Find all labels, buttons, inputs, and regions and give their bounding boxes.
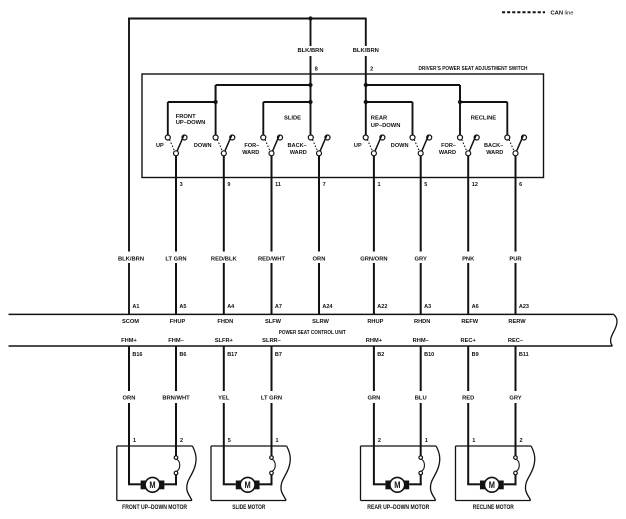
wire switch output col 2 (LT GRN) bbox=[175, 156, 177, 315]
pin 2 (recline motor) bbox=[520, 438, 523, 444]
wire motor lead RED (pin B9) bbox=[467, 346, 469, 484]
switch REAR DOWN (contacts and lever) bbox=[410, 135, 432, 156]
switch SLIDE FORWARD (contacts and lever) bbox=[261, 135, 283, 156]
wire feed drop to RECLINE FORWARD switch bbox=[459, 85, 461, 135]
motor M (slide motor) bbox=[236, 477, 260, 492]
pin A6 (control unit) bbox=[472, 304, 479, 310]
pin 1 (recline motor) bbox=[472, 438, 475, 444]
svg-text:UP–DOWN: UP–DOWN bbox=[176, 120, 206, 126]
pin B16 (control unit) bbox=[132, 352, 142, 358]
svg-text:A24: A24 bbox=[322, 304, 333, 310]
label FRONT UP-DOWN MOTOR bbox=[122, 505, 188, 511]
wire switch output col 4 (RED/WHT) bbox=[271, 156, 273, 315]
svg-text:UP: UP bbox=[354, 143, 362, 149]
svg-text:GRN: GRN bbox=[367, 396, 380, 402]
svg-text:FHDN: FHDN bbox=[217, 319, 233, 325]
svg-text:SLRW: SLRW bbox=[312, 319, 329, 325]
label wire color YEL bbox=[218, 396, 230, 402]
wire bus to FORWARD switch bbox=[263, 101, 310, 103]
junction REC FORWARD feed bbox=[458, 100, 462, 104]
pin 9 (switch output) bbox=[227, 182, 230, 188]
svg-text:PNK: PNK bbox=[462, 256, 475, 262]
pin A1 (control unit) bbox=[132, 304, 139, 310]
pin 1 (rear up-down motor) bbox=[425, 438, 428, 444]
node REC+ (control unit output) bbox=[461, 338, 477, 344]
pin A5 (control unit) bbox=[179, 304, 186, 310]
node SLRW (control unit input) bbox=[312, 319, 329, 325]
pin A3 (control unit) bbox=[424, 304, 431, 310]
svg-text:3: 3 bbox=[180, 182, 183, 188]
power seat control unit band bbox=[9, 314, 618, 346]
svg-text:A1: A1 bbox=[132, 304, 139, 310]
wire top bus bbox=[128, 18, 366, 20]
junction top bus to pin 8 feed bbox=[308, 16, 312, 20]
pin 5 (switch output) bbox=[424, 182, 427, 188]
svg-text:WARD: WARD bbox=[290, 150, 307, 156]
svg-text:7: 7 bbox=[323, 182, 326, 188]
svg-text:2: 2 bbox=[370, 66, 373, 72]
label switch RECLINE FORWARD bbox=[439, 143, 456, 156]
wire bus to UP switch bbox=[168, 101, 216, 103]
node REC- (control unit output) bbox=[508, 338, 523, 344]
label switch FRONT UP bbox=[156, 143, 164, 149]
svg-text:BRN/WHT: BRN/WHT bbox=[162, 396, 190, 402]
svg-text:B9: B9 bbox=[472, 352, 479, 358]
svg-text:FRONT: FRONT bbox=[176, 114, 196, 120]
svg-text:BLK/BRN: BLK/BRN bbox=[353, 48, 379, 54]
node RERW (control unit input) bbox=[508, 319, 526, 325]
svg-text:M: M bbox=[149, 480, 155, 490]
svg-text:1: 1 bbox=[276, 438, 279, 444]
label switch RECLINE BACKWARD bbox=[484, 143, 503, 156]
svg-text:RHUP: RHUP bbox=[367, 319, 383, 325]
label wire color BLK/BRN (col 1) bbox=[118, 256, 144, 262]
svg-text:WARD: WARD bbox=[439, 150, 456, 156]
svg-text:ORN: ORN bbox=[313, 256, 326, 262]
pin A4 (control unit) bbox=[227, 304, 235, 310]
label wire color PUR bbox=[509, 256, 522, 262]
pin 7 (switch output) bbox=[323, 182, 326, 188]
label DRIVER'S POWER SEAT ADJUSTMENT SWITCH bbox=[419, 66, 528, 72]
svg-text:BLU: BLU bbox=[415, 396, 427, 402]
wire rear up-down motor right lead lower bbox=[409, 475, 422, 486]
label switch SLIDE BACKWARD bbox=[288, 143, 307, 156]
svg-text:UP–DOWN: UP–DOWN bbox=[371, 123, 401, 129]
svg-text:BLK/BRN: BLK/BRN bbox=[118, 256, 144, 262]
svg-text:11: 11 bbox=[275, 182, 281, 188]
svg-text:M: M bbox=[245, 480, 251, 490]
pin 5 (slide motor) bbox=[228, 438, 231, 444]
svg-text:LT GRN: LT GRN bbox=[165, 256, 186, 262]
node FHDN (control unit input) bbox=[217, 319, 233, 325]
svg-text:1: 1 bbox=[472, 438, 475, 444]
wire bus to REAR DOWN switch bbox=[366, 101, 413, 103]
svg-text:BLK/BRN: BLK/BRN bbox=[297, 48, 323, 54]
svg-text:SLRR–: SLRR– bbox=[262, 338, 281, 344]
wire bus pin2 to REC FORWARD switch bbox=[366, 85, 460, 102]
svg-text:DOWN: DOWN bbox=[194, 143, 212, 149]
junction DOWN feed bbox=[214, 100, 218, 104]
pin A24 (control unit) bbox=[322, 304, 333, 310]
svg-text:1: 1 bbox=[425, 438, 428, 444]
motor M (rear up-down motor) bbox=[385, 477, 409, 492]
pin 1 (front up-down motor) bbox=[133, 438, 136, 444]
inline connector on front up-down motor right lead bbox=[174, 456, 180, 475]
label wire color GRN bbox=[367, 396, 380, 402]
label REAR UP-DOWN MOTOR bbox=[367, 505, 430, 511]
svg-text:B6: B6 bbox=[179, 352, 186, 358]
svg-text:REAR UP–DOWN MOTOR: REAR UP–DOWN MOTOR bbox=[367, 505, 430, 511]
label switch SLIDE FORWARD bbox=[242, 143, 259, 156]
node SLFW (control unit input) bbox=[265, 319, 282, 325]
wire front up-down motor right lead lower bbox=[164, 475, 177, 486]
pin B17 (control unit) bbox=[227, 352, 237, 358]
wire feed drop to RECLINE BACKWARD switch bbox=[506, 102, 508, 135]
wire feed drop to REAR DOWN switch bbox=[412, 102, 414, 135]
svg-text:RHM+: RHM+ bbox=[366, 338, 383, 344]
label SLIDE group bbox=[284, 116, 301, 122]
svg-text:1: 1 bbox=[133, 438, 136, 444]
switch FRONT DOWN (contacts and lever) bbox=[213, 135, 235, 156]
svg-text:RED/BLK: RED/BLK bbox=[211, 256, 238, 262]
svg-text:FRONT UP–DOWN MOTOR: FRONT UP–DOWN MOTOR bbox=[122, 505, 188, 511]
svg-text:SLFW: SLFW bbox=[265, 319, 282, 325]
node SLRR- (control unit output) bbox=[262, 338, 281, 344]
inline connector on rear up-down motor right lead bbox=[419, 456, 425, 475]
svg-text:UP: UP bbox=[156, 143, 164, 149]
svg-text:REC–: REC– bbox=[508, 338, 523, 344]
wire bus pin8 to DOWN switch bbox=[216, 85, 311, 102]
svg-text:REAR: REAR bbox=[371, 116, 388, 122]
svg-text:9: 9 bbox=[227, 182, 230, 188]
svg-text:WARD: WARD bbox=[486, 150, 503, 156]
svg-text:RECLINE MOTOR: RECLINE MOTOR bbox=[473, 505, 515, 511]
svg-text:RED: RED bbox=[462, 396, 474, 402]
pin 2 (rear up-down motor) bbox=[378, 438, 381, 444]
pin B10 (control unit) bbox=[424, 352, 434, 358]
label switch REAR DOWN bbox=[391, 143, 409, 149]
pin 8 (switch) bbox=[315, 66, 318, 72]
pin A23 (control unit) bbox=[519, 304, 529, 310]
pin 3 (switch output) bbox=[180, 182, 183, 188]
svg-text:REFW: REFW bbox=[461, 319, 478, 325]
svg-text:A4: A4 bbox=[227, 304, 235, 310]
svg-text:2: 2 bbox=[520, 438, 523, 444]
pin 12 (switch output) bbox=[472, 182, 478, 188]
wire slide motor right lead lower bbox=[260, 475, 273, 486]
label wire color GRN/ORN bbox=[360, 256, 387, 262]
svg-text:2: 2 bbox=[378, 438, 381, 444]
switch RECLINE FORWARD (contacts and lever) bbox=[458, 135, 480, 156]
svg-text:SLIDE MOTOR: SLIDE MOTOR bbox=[232, 505, 266, 511]
label wire color ORN bbox=[313, 256, 326, 262]
wire feed drop to FRONT UP switch bbox=[167, 102, 169, 135]
svg-text:2: 2 bbox=[180, 438, 183, 444]
node FHUP (control unit input) bbox=[170, 319, 186, 325]
pin A7 (control unit) bbox=[275, 304, 282, 310]
pin A22 (control unit) bbox=[377, 304, 387, 310]
pin 2 (switch) bbox=[370, 66, 373, 72]
label switch FRONT DOWN bbox=[194, 143, 212, 149]
wire motor lead GRY (pin B11) bbox=[515, 346, 517, 456]
label wire color BLK/BRN (pin 2) bbox=[353, 48, 379, 54]
front up-down motor box bbox=[117, 446, 196, 501]
wire motor lead BRN/WHT (pin B6) bbox=[175, 346, 177, 456]
label switch REAR UP bbox=[354, 143, 362, 149]
pin B7 (control unit) bbox=[275, 352, 282, 358]
svg-text:A7: A7 bbox=[275, 304, 282, 310]
label wire color BLK/BRN (pin 8) bbox=[297, 48, 323, 54]
switch REAR UP (contacts and lever) bbox=[363, 135, 385, 156]
wire motor lead LT GRN (pin B7) bbox=[271, 346, 273, 456]
svg-text:REC+: REC+ bbox=[461, 338, 477, 344]
node RHM+ (control unit output) bbox=[366, 338, 383, 344]
legend: CAN line symbol bbox=[502, 11, 545, 13]
motor M (recline motor) bbox=[480, 477, 504, 492]
svg-text:GRN/ORN: GRN/ORN bbox=[360, 256, 387, 262]
label REAR UP-DOWN group bbox=[371, 116, 401, 129]
switch RECLINE BACKWARD (contacts and lever) bbox=[505, 135, 527, 156]
label wire color BRN/WHT bbox=[162, 396, 190, 402]
wire recline motor right lead lower bbox=[504, 475, 517, 486]
svg-text:A6: A6 bbox=[472, 304, 479, 310]
svg-text:ORN: ORN bbox=[123, 396, 136, 402]
junction pin8 bus lower bbox=[308, 100, 312, 104]
wire switch output col 3 (RED/BLK) bbox=[223, 156, 225, 315]
wire switch output col 8 (PNK) bbox=[467, 156, 469, 315]
label wire color GRY bbox=[415, 256, 427, 262]
wire SCOM trunk BLK/BRN (col 1) bbox=[128, 18, 130, 315]
wire motor lead BLU (pin B10) bbox=[420, 346, 422, 456]
label wire color RED/BLK bbox=[211, 256, 238, 262]
label RECLINE group bbox=[471, 116, 497, 122]
switch FRONT UP (contacts and lever) bbox=[165, 135, 187, 156]
svg-text:RECLINE: RECLINE bbox=[471, 116, 497, 122]
svg-text:1: 1 bbox=[378, 182, 381, 188]
svg-text:SCOM: SCOM bbox=[122, 319, 139, 325]
svg-text:RED/WHT: RED/WHT bbox=[258, 256, 286, 262]
svg-text:PUR: PUR bbox=[509, 256, 522, 262]
svg-text:8: 8 bbox=[315, 66, 318, 72]
svg-text:A22: A22 bbox=[377, 304, 387, 310]
svg-text:A3: A3 bbox=[424, 304, 431, 310]
wire rear up-down motor left lead bbox=[373, 483, 386, 485]
svg-text:GRY: GRY bbox=[415, 256, 427, 262]
svg-text:FHM–: FHM– bbox=[168, 338, 183, 344]
motor M (front up-down motor) bbox=[141, 477, 165, 492]
wire pin2 feed to REAR UP switch bbox=[365, 85, 367, 135]
wire motor lead GRN (pin B2) bbox=[373, 346, 375, 484]
svg-text:B17: B17 bbox=[227, 352, 237, 358]
label wire color RED bbox=[462, 396, 474, 402]
svg-text:RHDN: RHDN bbox=[414, 319, 430, 325]
label wire color PNK bbox=[462, 256, 475, 262]
svg-text:RERW: RERW bbox=[508, 319, 526, 325]
label wire color BLU bbox=[415, 396, 427, 402]
svg-text:A5: A5 bbox=[179, 304, 186, 310]
label wire color GRY bbox=[509, 396, 521, 402]
svg-text:DRIVER’S POWER SEAT ADJUSTMENT: DRIVER’S POWER SEAT ADJUSTMENT SWITCH bbox=[419, 66, 528, 72]
node FHM- (control unit output) bbox=[168, 338, 183, 344]
label SLIDE MOTOR bbox=[232, 505, 266, 511]
wire switch output col 9 (PUR) bbox=[515, 156, 517, 315]
svg-text:A23: A23 bbox=[519, 304, 529, 310]
pin 11 (switch output) bbox=[275, 182, 281, 188]
svg-text:5: 5 bbox=[424, 182, 427, 188]
junction pin2 bus upper bbox=[364, 83, 368, 87]
svg-text:BACK–: BACK– bbox=[484, 143, 503, 149]
label wire color RED/WHT bbox=[258, 256, 286, 262]
svg-text:RHM–: RHM– bbox=[413, 338, 429, 344]
node SCOM (control unit input) bbox=[122, 319, 139, 325]
svg-text:FHUP: FHUP bbox=[170, 319, 186, 325]
svg-text:B2: B2 bbox=[377, 352, 384, 358]
svg-text:SLFR+: SLFR+ bbox=[215, 338, 234, 344]
wire pin 8 feed BLK/BRN bbox=[310, 19, 312, 86]
node RHDN (control unit input) bbox=[414, 319, 430, 325]
inline connector on slide motor right lead bbox=[270, 456, 276, 475]
svg-text:WARD: WARD bbox=[242, 150, 259, 156]
svg-text:LT GRN: LT GRN bbox=[261, 396, 282, 402]
svg-text:BACK–: BACK– bbox=[288, 143, 307, 149]
label wire color LT GRN bbox=[261, 396, 282, 402]
svg-text:line: line bbox=[565, 11, 574, 17]
pin B11 (control unit) bbox=[519, 352, 529, 358]
wire motor lead ORN (pin B16) bbox=[128, 346, 130, 484]
inline connector on recline motor right lead bbox=[514, 456, 520, 475]
svg-text:B16: B16 bbox=[132, 352, 142, 358]
wire switch output col 5 (ORN) bbox=[318, 156, 320, 315]
label RECLINE MOTOR bbox=[473, 505, 515, 511]
svg-text:SLIDE: SLIDE bbox=[284, 116, 301, 122]
node RHUP (control unit input) bbox=[367, 319, 383, 325]
label POWER SEAT CONTROL UNIT bbox=[279, 330, 346, 336]
slide motor box bbox=[211, 446, 290, 501]
label FRONT UP-DOWN group bbox=[176, 114, 206, 126]
svg-text:5: 5 bbox=[228, 438, 231, 444]
recline motor box bbox=[456, 446, 535, 501]
wire motor lead YEL (pin B17) bbox=[223, 346, 225, 484]
node SLFR+ (control unit output) bbox=[215, 338, 234, 344]
svg-text:M: M bbox=[489, 480, 495, 490]
svg-text:B7: B7 bbox=[275, 352, 282, 358]
node REFW (control unit input) bbox=[461, 319, 478, 325]
junction pin2 bus lower bbox=[364, 100, 368, 104]
svg-text:M: M bbox=[394, 480, 400, 490]
svg-text:FHM+: FHM+ bbox=[121, 338, 137, 344]
wire pin8 feed to BACKWARD switch bbox=[310, 85, 312, 135]
svg-text:12: 12 bbox=[472, 182, 478, 188]
label wire color ORN bbox=[123, 396, 136, 402]
pin B9 (control unit) bbox=[472, 352, 479, 358]
svg-text:6: 6 bbox=[519, 182, 522, 188]
svg-text:YEL: YEL bbox=[218, 396, 230, 402]
wire feed drop to FRONT DOWN switch bbox=[215, 85, 217, 135]
wire bus to REC BACKWARD switch bbox=[460, 101, 507, 103]
pin B6 (control unit) bbox=[179, 352, 186, 358]
wire slide motor left lead bbox=[223, 483, 236, 485]
svg-text:B10: B10 bbox=[424, 352, 434, 358]
wire switch output col 7 (GRY) bbox=[420, 156, 422, 315]
wire pin 2 feed BLK/BRN bbox=[365, 18, 367, 85]
svg-text:CAN: CAN bbox=[551, 11, 564, 17]
svg-text:FOR–: FOR– bbox=[441, 143, 456, 149]
legend: CAN line text bbox=[551, 11, 574, 17]
svg-text:POWER SEAT CONTROL UNIT: POWER SEAT CONTROL UNIT bbox=[279, 330, 346, 336]
pin B2 (control unit) bbox=[377, 352, 384, 358]
svg-text:GRY: GRY bbox=[509, 396, 521, 402]
svg-text:DOWN: DOWN bbox=[391, 143, 409, 149]
node RHM- (control unit output) bbox=[413, 338, 429, 344]
driver's power seat adjustment switch box bbox=[142, 74, 544, 178]
node FHM+ (control unit output) bbox=[121, 338, 137, 344]
rear up-down motor box bbox=[361, 446, 440, 501]
junction pin8 bus upper bbox=[308, 83, 312, 87]
pin 1 (switch output) bbox=[378, 182, 381, 188]
svg-text:FOR–: FOR– bbox=[244, 143, 259, 149]
wire recline motor left lead bbox=[467, 483, 480, 485]
switch SLIDE BACKWARD (contacts and lever) bbox=[308, 135, 330, 156]
pin 1 (slide motor) bbox=[276, 438, 279, 444]
wire feed drop to SLIDE FORWARD switch bbox=[262, 102, 264, 135]
wire switch output col 6 (GRN/ORN) bbox=[373, 156, 375, 315]
label wire color LT GRN bbox=[165, 256, 186, 262]
wire front up-down motor left lead bbox=[128, 483, 141, 485]
svg-text:B11: B11 bbox=[519, 352, 529, 358]
pin 2 (front up-down motor) bbox=[180, 438, 183, 444]
pin 6 (switch output) bbox=[519, 182, 522, 188]
